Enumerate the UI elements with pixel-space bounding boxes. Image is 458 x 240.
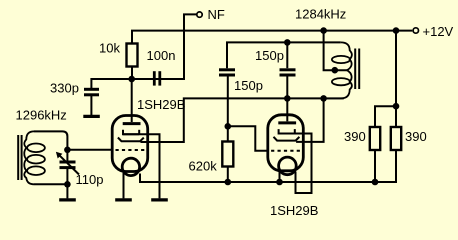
wire tube2 anode lead — [286, 98, 288, 121]
node transformer bottom — [320, 95, 327, 102]
svg-text:1284kHz: 1284kHz — [295, 7, 346, 22]
svg-text:1SH29B: 1SH29B — [270, 203, 318, 218]
node 390 top junction — [393, 103, 400, 110]
node tube2 filament bus — [276, 179, 283, 186]
transformer T1 core — [17, 135, 19, 180]
tube U2 beam element — [274, 137, 300, 141]
wire 110p to ground — [66, 184, 68, 198]
wire 620k bottom lead — [227, 167, 229, 183]
capacitor C4 150p left — [219, 70, 235, 75]
node 390 left bus — [372, 179, 379, 186]
wire 620k top lead — [227, 126, 229, 141]
tube U2 filament — [279, 157, 297, 175]
inductor L1 winding — [24, 131, 34, 184]
wire tube2 filament left to bus — [279, 172, 281, 183]
wire 390 left top lead — [375, 106, 396, 127]
wire grid2 to tube2 — [228, 126, 269, 151]
terminal NF — [197, 12, 202, 17]
node rail transformer tap — [320, 27, 327, 34]
svg-text:110p: 110p — [76, 172, 104, 187]
wire rail to tap — [324, 31, 347, 71]
svg-text:10k: 10k — [99, 41, 120, 56]
inductor L2 winding — [324, 42, 352, 98]
tube U1 1SH29B envelope — [112, 116, 148, 172]
tube U1 filament — [122, 158, 139, 175]
resistor R1 10k — [127, 44, 138, 67]
resistor R2 620k — [222, 142, 233, 167]
tube U1 control grid dashed — [116, 149, 147, 151]
capacitor C5 150p right — [280, 70, 296, 75]
wire L1 bottom — [34, 183, 67, 185]
tube U2 1SH29B envelope — [268, 115, 304, 171]
wire tube1 g2 to ground — [148, 134, 160, 198]
capacitor C2 100n — [154, 71, 160, 85]
ground coil — [59, 198, 76, 201]
arrow of variable capacitor — [58, 154, 79, 174]
svg-text:620k: 620k — [189, 158, 218, 173]
wire ground bus — [140, 151, 396, 183]
wire +12V down feed — [395, 31, 397, 127]
tube U2 control grid dashed — [271, 150, 302, 152]
tube U2 screen grid g2 — [279, 129, 295, 133]
wire tube1 filament left to ground — [123, 173, 125, 199]
wire tube2 g2 to filament — [296, 134, 312, 194]
node anode junction tube1 — [128, 76, 135, 83]
node +12V feed — [393, 27, 400, 34]
wire 330p to ground — [90, 96, 92, 115]
wire tube2 beam lead to node — [296, 98, 324, 141]
wire +12V rail top — [132, 31, 412, 44]
wire 10k bottom lead — [131, 67, 133, 80]
capacitor C3 110p variable — [60, 162, 76, 168]
ground tube1 filament — [115, 198, 132, 201]
wire 150p right leads — [286, 42, 288, 68]
wire tube1 anode lead — [131, 79, 133, 122]
tube U1 screen grid g2 — [123, 130, 139, 134]
terminal +12V — [413, 28, 418, 33]
ground tube1 g2 — [151, 198, 168, 201]
svg-text:NF: NF — [208, 7, 225, 22]
wire tube1 beam to node A — [141, 98, 344, 142]
node 150p right top — [284, 39, 291, 46]
tube U1 beam element — [118, 138, 144, 142]
svg-text:150p: 150p — [255, 48, 284, 63]
node tube2 anode — [284, 95, 291, 102]
wire tank line y42 — [227, 42, 341, 68]
transformer T2 core — [354, 49, 356, 90]
resistor R4 390 right — [391, 127, 401, 150]
tube U2 anode — [278, 121, 296, 124]
wire anode horizontal — [91, 14, 196, 88]
node 620k bus — [225, 179, 232, 186]
node grid top — [64, 147, 71, 154]
wire 150p left bottom lead — [227, 76, 229, 126]
node grid2 junction — [225, 123, 232, 130]
svg-text:+12V: +12V — [423, 24, 454, 39]
wire 390 left bottom lead — [374, 150, 376, 182]
svg-text:390: 390 — [405, 129, 427, 144]
svg-text:150p: 150p — [234, 78, 263, 93]
svg-text:390: 390 — [344, 129, 366, 144]
capacitor C1 330p — [84, 89, 99, 95]
wire L1 top to grid node — [34, 131, 67, 149]
node bottom of 110p — [64, 181, 71, 188]
tube U1 anode — [123, 122, 141, 125]
svg-text:1296kHz: 1296kHz — [16, 108, 67, 123]
ground 330p — [83, 115, 100, 118]
svg-text:330p: 330p — [50, 81, 79, 96]
wire grid line to tube1 — [67, 149, 113, 151]
svg-text:1SH29B: 1SH29B — [137, 97, 185, 112]
resistor R3 390 left — [370, 127, 380, 150]
svg-text:100n: 100n — [147, 48, 176, 63]
node transformer tap — [332, 67, 339, 74]
